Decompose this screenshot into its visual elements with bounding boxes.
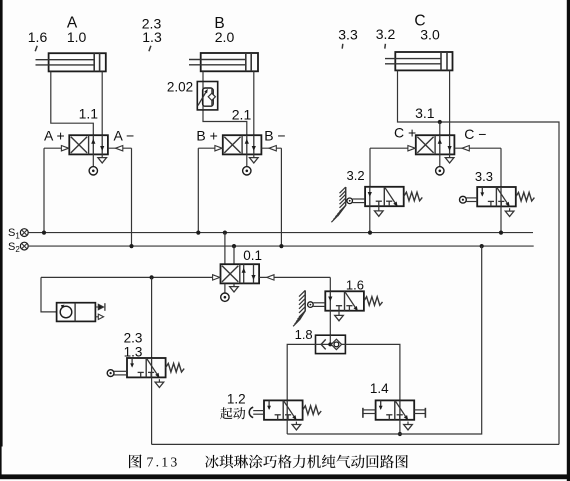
svg-text:1.2: 1.2 [227, 391, 246, 406]
valve 1.3 exhaust port [155, 379, 164, 387]
svg-text:C −: C − [464, 126, 486, 142]
tick under label 3.3 [341, 44, 344, 49]
valve 1.3 plunger actuator [107, 370, 127, 377]
valve 1.4 pin actuators both sides [363, 408, 426, 418]
valve 1.1 body [69, 135, 108, 154]
valve 3.1 right pilot line [454, 146, 501, 151]
valve 0.1 right pilot line to valve 1.6 [259, 275, 330, 280]
tick under label 1.6 [35, 46, 37, 51]
svg-text:C +: C + [394, 124, 416, 140]
svg-text:S: S [8, 227, 15, 239]
svg-text:3.2: 3.2 [376, 26, 396, 42]
wire: valve 1.4 down to supply rail [399, 420, 401, 434]
svg-text:3.1: 3.1 [415, 105, 435, 121]
svg-text:2.1: 2.1 [232, 106, 252, 122]
wire: A- pilot down to bus S2 [131, 148, 133, 246]
valve 1.2 body [264, 400, 303, 420]
junction on C-port line above valve 3.1 [438, 120, 442, 124]
valve 2.1 left pilot line [198, 146, 223, 151]
valve 2.1 exhaust port [250, 154, 259, 163]
svg-text:3.3: 3.3 [475, 169, 493, 184]
wire: pilot line corner down into counter [41, 277, 57, 312]
valve 1.4 body [376, 400, 415, 420]
valve 2.1 right pilot line [261, 146, 281, 151]
svg-text:B −: B − [264, 128, 285, 144]
svg-text:1.0: 1.0 [67, 29, 87, 45]
wire: 0.1 right pilot corner down to valve 1.6 [329, 277, 331, 291]
valve 3.1 left pilot line [370, 146, 416, 151]
svg-text:1: 1 [15, 232, 20, 241]
wire: cylinder C left port along top to right bus [398, 70, 560, 444]
wire: cylinder C right port to valve 3.1 port [449, 70, 451, 135]
wire: cylinder B left port to flow control 2.02 [202, 71, 204, 81]
wire: valve 1.3 through-line top/bottom [151, 358, 153, 377]
svg-text:2.3: 2.3 [124, 331, 143, 346]
valve 1.1 exhaust port [98, 154, 107, 163]
wire: valve 3.2 supply down to bus S1 [369, 206, 371, 232]
valve 3.2 exhaust port [375, 206, 384, 216]
valve 3.3 plunger actuator [460, 196, 478, 203]
svg-text:2.02: 2.02 [167, 80, 193, 95]
wire: bus S2 down to valve 0.1 port [233, 246, 235, 264]
svg-text:3.3: 3.3 [338, 27, 358, 43]
valve 3.3 body [477, 187, 516, 207]
valve 1.6 return spring [364, 297, 383, 306]
svg-text:1.3: 1.3 [142, 29, 162, 45]
valve 3.2 body [365, 187, 404, 207]
wire: B- pilot down to bus S2 [280, 148, 282, 246]
svg-text:1.3: 1.3 [124, 344, 143, 359]
valve 1.2 push-button actuator [249, 407, 264, 417]
svg-text:0.1: 0.1 [243, 248, 262, 263]
cylinder 2.0 (B) (double-acting, rod left) [189, 53, 258, 71]
valve 3.3 return spring [516, 192, 535, 201]
wire: valve 1.2 through-line [286, 400, 288, 419]
valve 3.1 body [416, 135, 455, 154]
svg-text:S: S [8, 241, 15, 253]
right page border [567, 0, 570, 481]
wire: cylinder A left port to valve 1.1 port [51, 71, 94, 135]
wire: valve 1.4 through-line [399, 400, 401, 419]
svg-text:3.2: 3.2 [347, 168, 365, 183]
tick under label 1.3 [149, 46, 151, 51]
left page border [0, 0, 3, 447]
valve 0.1 supply port [221, 283, 229, 301]
wire: cylinder A right port to valve 1.1 port [101, 71, 103, 135]
valve 1.1 left pilot line [44, 146, 69, 151]
valve 1.2 return spring [303, 406, 322, 415]
junction dot on supply rail under valve 1.4 [398, 432, 402, 436]
junction dots on S2 [129, 244, 133, 248]
valve 3.3 exhaust port [505, 208, 514, 216]
wire: flow control 2.02 to valve 2.1 port [203, 110, 247, 135]
wire: valve 1.2 down to supply rail [286, 420, 288, 434]
wire: junction down to valve 3.1 port [439, 122, 441, 135]
svg-text:2.0: 2.0 [215, 29, 235, 45]
wire: A+ pilot down to bus S1 [43, 148, 45, 232]
valve 3.2 roller-lever actuator with wall [331, 187, 365, 222]
wire: C- pilot down to valve 3.3 [500, 148, 502, 187]
svg-text:3.0: 3.0 [420, 27, 440, 43]
valve 3.2 return spring [404, 192, 423, 201]
valve 1.4 exhaust port [404, 422, 413, 430]
svg-text:B +: B + [196, 128, 217, 144]
valve 1.1 supply port [89, 154, 97, 175]
valve 2.1 body [223, 135, 262, 154]
valve 3.1 exhaust port [445, 154, 454, 163]
junction dots on S1 [42, 231, 46, 235]
valve 3.1 supply port [436, 154, 444, 175]
valve 0.1 body [221, 264, 260, 283]
svg-text:1.6: 1.6 [346, 278, 364, 293]
svg-text:1.1: 1.1 [79, 105, 99, 121]
check valve 1.8 [316, 335, 346, 353]
valve 1.3 return spring [166, 363, 185, 372]
one-way flow control valve 2.02 [197, 82, 217, 110]
supply rail from valve 1.2 to bus S2 riser [287, 246, 482, 434]
svg-text:7.13: 7.13 [147, 454, 180, 469]
wire: cylinder B right port to valve 2.1 port [253, 71, 255, 135]
valve 1.2 exhaust port [292, 422, 301, 430]
valve 1.1 right pilot line [108, 146, 132, 151]
svg-text:1.6: 1.6 [28, 29, 48, 45]
tick under label 3.2 [384, 44, 387, 49]
air bus S1 [20, 229, 533, 237]
svg-text:1.4: 1.4 [370, 381, 389, 396]
valve 1.6 body [325, 291, 364, 311]
svg-text:2: 2 [15, 245, 20, 254]
cylinder 3.0 (C) (double-acting, rod left) [385, 52, 453, 70]
wire: C+ pilot down to valve 3.2 [369, 148, 371, 187]
wire: check valve 1.8 left port down to valve 1.2 [287, 344, 315, 400]
junction dot feeding valve 1.3 [150, 275, 154, 279]
label 起动 (start) at valve 1.2 [220, 407, 245, 419]
valve 1.3 body [127, 358, 166, 378]
figure caption [129, 454, 142, 468]
wire: valve 1.3 down to bottom rail [151, 377, 153, 444]
svg-text:1.8: 1.8 [295, 327, 313, 342]
signal rail from valve 1.3 to right bus [152, 443, 559, 445]
valve 1.6 roller-lever actuator with wall [293, 290, 325, 326]
wire: B+ pilot down to bus S1 [197, 148, 199, 232]
wire: bus S1 down to valve 0.1 port [224, 233, 226, 265]
svg-text:A +: A + [44, 128, 65, 144]
valve 0.1 exhaust port [230, 283, 239, 292]
wire: check valve 1.8 right port down to valve 1.4 [345, 344, 400, 400]
valve 0.1 left pilot line from counter/valve 1.3 node [41, 275, 221, 280]
wire: valve 1.6 down to check valve 1.8 [329, 311, 331, 336]
valve 2.1 supply port [243, 154, 251, 175]
wire: valve 3.3 through-line (output up / supply down to S1) [500, 187, 502, 206]
air bus S2 [20, 242, 533, 250]
valve 1.6 exhaust port [335, 311, 344, 321]
bottom page border bar [0, 474, 570, 479]
cylinder 1.0 (A) (double-acting, rod left) [36, 53, 106, 71]
svg-text:A −: A − [114, 128, 135, 144]
wire: junction down to valve 1.3 [151, 277, 153, 358]
pneumatic counter unit [57, 303, 105, 322]
